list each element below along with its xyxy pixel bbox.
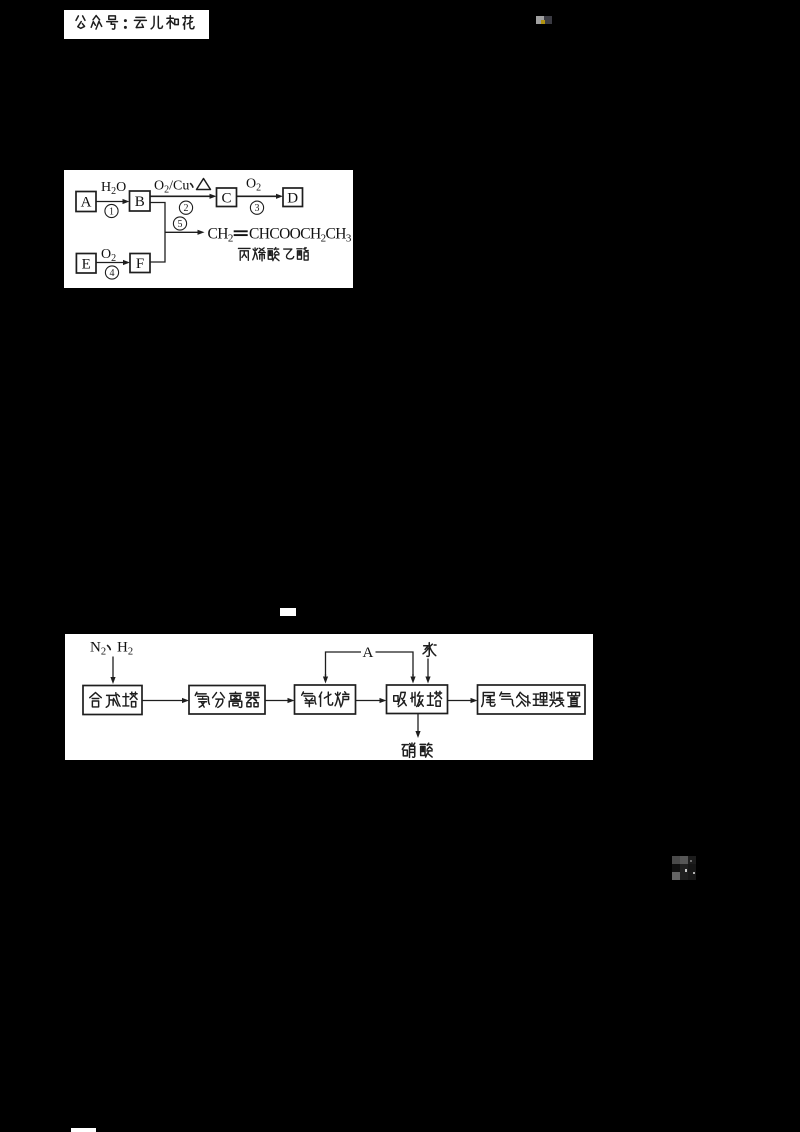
svg-text:N2: N2: [90, 639, 106, 657]
svg-text:CHCOOCH2CH3: CHCOOCH2CH3: [249, 225, 352, 244]
box C: [217, 188, 237, 207]
svg-text:A: A: [81, 194, 92, 210]
flow diagram white panel: [65, 634, 593, 761]
svg-text:F: F: [136, 256, 144, 272]
svg-text:3: 3: [255, 203, 260, 214]
product name: [238, 248, 250, 260]
svg-text:D: D: [287, 190, 298, 206]
delta: [197, 178, 211, 189]
artifact white dash mid-page: [280, 608, 296, 616]
svg-text:CH2: CH2: [208, 225, 233, 244]
box xishouta: [387, 685, 448, 714]
svg-text:2: 2: [184, 203, 189, 214]
svg-text:5: 5: [178, 219, 183, 230]
label water: [423, 642, 436, 656]
label 5: [173, 216, 186, 229]
A feed left: [326, 652, 362, 676]
arrow A-B: [96, 200, 124, 202]
box B: [130, 191, 151, 211]
box hechengta: [83, 685, 142, 714]
svg-text:A: A: [363, 645, 374, 661]
artifact mark top (grey squares + yellow dot): [536, 16, 544, 24]
arrow E-F: [96, 261, 125, 263]
arrow 2: [265, 699, 289, 701]
label 1: [105, 204, 118, 217]
arrow N2H2 down: [112, 656, 114, 678]
svg-text:E: E: [82, 256, 91, 272]
svg-text:4: 4: [110, 268, 115, 279]
box anfenliqi: [189, 685, 265, 714]
arrow 1: [142, 699, 184, 701]
arrow water: [427, 658, 429, 678]
svg-text:O2: O2: [101, 247, 116, 264]
box E: [76, 253, 96, 273]
header box (公众号：云儿和花): [64, 10, 209, 39]
box weiqi: [478, 685, 586, 714]
box F: [130, 253, 150, 272]
branch wire: [150, 202, 165, 262]
label 2: [179, 201, 192, 214]
arrow 4: [448, 699, 473, 701]
arrow B-C: [150, 195, 211, 197]
arrow to product: [165, 231, 199, 233]
svg-text:1: 1: [109, 206, 114, 217]
svg-text:H2O: H2O: [101, 180, 126, 197]
box D: [283, 188, 303, 207]
svg-text:O2/Cu: O2/Cu: [154, 178, 189, 195]
artifact grey block right side: [672, 856, 680, 864]
arrow to nitric acid: [417, 713, 419, 732]
svg-text:H2: H2: [117, 639, 133, 657]
chemistry diagram white panel: [64, 170, 353, 288]
box A: [76, 191, 96, 211]
A feed right: [376, 652, 414, 676]
label nitric acid: [402, 742, 415, 756]
svg-text:O2: O2: [246, 176, 261, 193]
arrow C-D: [237, 195, 278, 197]
label 4: [105, 265, 118, 278]
svg-text:C: C: [221, 190, 231, 206]
box yanghualu: [295, 685, 356, 714]
arrow 3: [356, 699, 382, 701]
label 3: [250, 201, 263, 214]
svg-text:B: B: [135, 194, 145, 210]
artifact white sliver bottom-left: [71, 1128, 96, 1132]
